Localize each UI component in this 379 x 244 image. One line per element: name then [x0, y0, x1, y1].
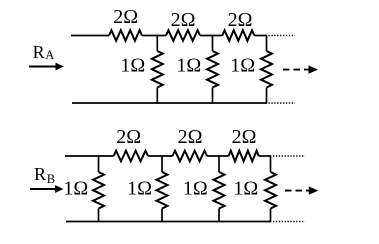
dotted continuation B top — [273, 155, 305, 157]
wire B top seg3 — [259, 155, 271, 157]
svg-text:2Ω: 2Ω — [171, 9, 196, 31]
dotted continuation A top — [269, 35, 296, 37]
wire A junction 3 upper — [266, 35, 268, 51]
svg-text:2Ω: 2Ω — [116, 126, 141, 148]
svg-text:1Ω: 1Ω — [127, 177, 152, 199]
resistor 2ohm B3 — [229, 151, 259, 162]
wire A top seg3 — [254, 35, 266, 37]
resistor 2ohm A3 — [222, 30, 254, 41]
resistor 1ohm A3 — [261, 51, 272, 88]
wire B bottom — [66, 221, 271, 223]
resistor 1ohm A2 — [207, 51, 218, 88]
svg-text:R: R — [34, 164, 46, 184]
svg-text:1Ω: 1Ω — [183, 177, 208, 199]
svg-text:R: R — [33, 42, 45, 62]
resistor 2ohm B2 — [173, 151, 208, 162]
wire B top seg1 — [148, 155, 173, 157]
dotted continuation B bottom — [273, 221, 305, 223]
resistor 1ohm B2 — [157, 172, 168, 209]
svg-text:2Ω: 2Ω — [232, 126, 257, 148]
svg-text:2Ω: 2Ω — [113, 6, 138, 28]
resistor 1ohm B3 — [214, 172, 225, 209]
resistor 2ohm A1 — [109, 30, 142, 41]
svg-text:2Ω: 2Ω — [228, 9, 253, 31]
wire A top-left — [71, 35, 109, 37]
wire B junction 2 lower — [161, 209, 163, 223]
svg-text:1Ω: 1Ω — [233, 177, 258, 199]
wire A top seg2 — [200, 35, 222, 37]
resistor 1ohm A1 — [152, 51, 163, 88]
resistor 2ohm B1 — [114, 151, 148, 162]
wire A junction 3 lower — [266, 88, 268, 104]
dashed arrow B — [285, 190, 310, 192]
wire A junction 1 upper — [156, 35, 158, 51]
wire A junction 2 upper — [212, 35, 214, 51]
wire A junction 1 lower — [156, 88, 158, 104]
wire B junction 3 upper — [218, 155, 220, 172]
wire B junction 1 upper — [98, 155, 100, 172]
svg-text:A: A — [45, 48, 54, 62]
wire B top-left — [65, 155, 114, 157]
resistor 1ohm B4 — [265, 172, 276, 209]
svg-text:1Ω: 1Ω — [120, 55, 145, 77]
wire B junction 3 lower — [218, 209, 220, 223]
svg-text:2Ω: 2Ω — [178, 126, 203, 148]
svg-text:B: B — [47, 172, 55, 186]
dotted continuation A bottom — [269, 102, 296, 104]
wire B junction 1 lower — [98, 209, 100, 223]
resistor 2ohm A2 — [166, 30, 200, 41]
svg-text:1Ω: 1Ω — [230, 55, 255, 77]
dashed arrow A — [283, 69, 310, 71]
input arrow B — [30, 188, 56, 190]
wire A top seg1 — [142, 35, 166, 37]
svg-text:1Ω: 1Ω — [63, 177, 88, 199]
wire B top seg2 — [207, 155, 229, 157]
wire A junction 2 lower — [212, 88, 214, 104]
wire A bottom — [72, 102, 267, 104]
svg-text:1Ω: 1Ω — [176, 55, 201, 77]
wire B junction 2 upper — [161, 155, 163, 172]
wire B junction 4 upper — [270, 155, 272, 172]
wire B junction 4 lower — [270, 209, 272, 223]
resistor 1ohm B1 — [93, 172, 104, 209]
input arrow A — [29, 66, 56, 68]
